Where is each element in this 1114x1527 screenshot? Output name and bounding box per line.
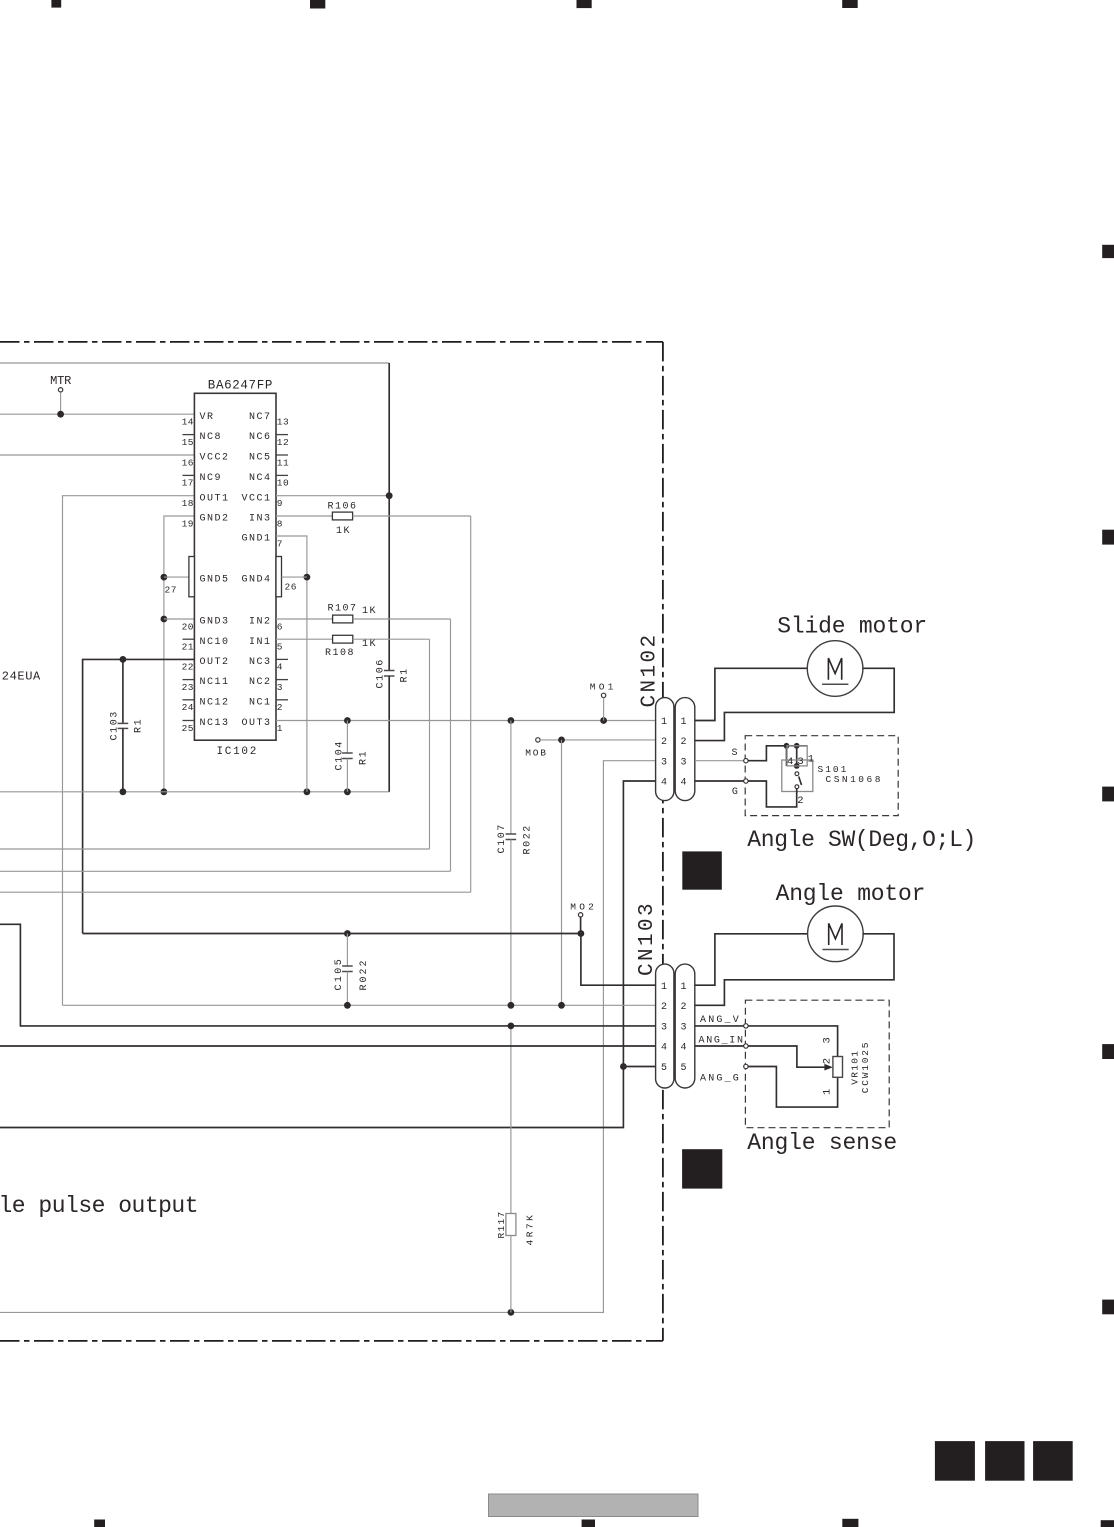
svg-text:8: 8 bbox=[277, 518, 283, 529]
svg-text:25: 25 bbox=[182, 723, 194, 734]
wire IN2 to left edge bbox=[450, 619, 452, 871]
wire IN3 to left edge bbox=[470, 516, 472, 892]
dash-dot boundary bottom bbox=[0, 1340, 663, 1342]
wire VR pin14 bbox=[0, 413, 194, 415]
wire GND4 pin26 bbox=[282, 576, 307, 578]
svg-text:IN2: IN2 bbox=[249, 617, 272, 628]
svg-text:OUT2: OUT2 bbox=[200, 657, 230, 668]
registration mark right 1 bbox=[1102, 245, 1114, 258]
registration mark bottom 4 bbox=[1101, 1520, 1114, 1527]
svg-text:1: 1 bbox=[277, 723, 283, 734]
svg-text:R1: R1 bbox=[359, 750, 370, 765]
registration mark right 4 bbox=[1102, 1044, 1114, 1059]
registration mark bottom 2 bbox=[582, 1520, 595, 1527]
svg-text:VR101: VR101 bbox=[850, 1050, 861, 1085]
capacitor C104 bbox=[346, 721, 348, 754]
svg-text:IN1: IN1 bbox=[249, 637, 272, 648]
svg-text:NC12: NC12 bbox=[200, 697, 230, 708]
svg-text:16: 16 bbox=[182, 457, 194, 468]
svg-text:NC2: NC2 bbox=[249, 677, 272, 688]
svg-text:3: 3 bbox=[661, 1023, 667, 1034]
svg-text:1: 1 bbox=[680, 982, 686, 993]
svg-text:22: 22 bbox=[182, 662, 194, 673]
svg-text:4: 4 bbox=[787, 756, 793, 768]
svg-text:NC7: NC7 bbox=[249, 412, 272, 423]
svg-text:2: 2 bbox=[661, 737, 667, 748]
wire OUT1 pin18 bbox=[63, 496, 195, 1006]
black square marker lower bbox=[682, 1149, 722, 1188]
svg-text:3: 3 bbox=[797, 756, 803, 768]
wire IN1 to left edge bbox=[429, 639, 431, 849]
wire CN102 pin4 to G terminal bbox=[695, 780, 744, 782]
svg-text:S: S bbox=[732, 748, 738, 759]
svg-text:ANG_V: ANG_V bbox=[700, 1015, 741, 1026]
capacitor C105 bbox=[346, 934, 348, 967]
svg-text:1: 1 bbox=[808, 754, 814, 766]
slide motor M symbol bbox=[828, 658, 841, 680]
registration mark top 4 bbox=[842, 0, 858, 8]
wire OUT2 MO2 line bbox=[83, 933, 581, 935]
svg-text:R022: R022 bbox=[523, 824, 534, 854]
resistor R117 bbox=[510, 1026, 512, 1214]
svg-text:GND3: GND3 bbox=[200, 617, 230, 628]
svg-text:ANG_IN: ANG_IN bbox=[699, 1035, 745, 1046]
IC102 wide pin 26 box bbox=[276, 557, 282, 597]
switch S101 outer housing bbox=[782, 760, 813, 792]
svg-text:OUT3: OUT3 bbox=[241, 718, 271, 729]
svg-text:Angle SW(Deg,O;L): Angle SW(Deg,O;L) bbox=[747, 827, 976, 853]
svg-text:1: 1 bbox=[661, 982, 667, 993]
svg-text:18: 18 bbox=[182, 498, 194, 509]
wire CN103 pin5 stub bbox=[623, 1066, 655, 1068]
wire G to switch bottom contact bbox=[748, 781, 797, 807]
svg-text:GND1: GND1 bbox=[241, 534, 271, 545]
svg-text:10: 10 bbox=[277, 478, 289, 489]
registration mark top 2 bbox=[310, 0, 325, 9]
svg-text:C107: C107 bbox=[497, 823, 508, 853]
wire ANG_G to VR101 pin1 bbox=[748, 1067, 838, 1108]
svg-text:1: 1 bbox=[680, 717, 686, 728]
wire CN103 pin3 ANG_V bbox=[695, 1025, 744, 1027]
registration mark top 3 bbox=[577, 0, 592, 8]
registration mark right 2 bbox=[1102, 530, 1114, 545]
svg-text:Slide motor: Slide motor bbox=[777, 613, 927, 639]
dashed box angle sense bbox=[745, 1000, 889, 1127]
svg-text:26: 26 bbox=[285, 582, 297, 593]
wire GND3 pin20 bbox=[164, 618, 195, 620]
svg-text:1: 1 bbox=[821, 1089, 833, 1095]
wire OUT2 pin22 bbox=[83, 659, 195, 933]
wire VCC2 pin16 bbox=[0, 454, 194, 456]
svg-text:23: 23 bbox=[182, 682, 194, 693]
capacitor C106 bbox=[388, 496, 390, 671]
svg-text:11: 11 bbox=[277, 457, 289, 468]
dash-dot boundary top bbox=[0, 341, 663, 343]
svg-text:17: 17 bbox=[182, 478, 194, 489]
svg-text:NC9: NC9 bbox=[200, 473, 223, 484]
wire MOB branch down bbox=[561, 740, 563, 1005]
wire GND bus bbox=[0, 791, 389, 793]
svg-text:5: 5 bbox=[661, 1063, 667, 1074]
svg-text:NC4: NC4 bbox=[249, 473, 272, 484]
registration mark top 1 bbox=[51, 0, 61, 8]
svg-text:C104: C104 bbox=[335, 740, 346, 770]
connector CN102 right housing bbox=[675, 698, 695, 801]
svg-text:OUT1: OUT1 bbox=[200, 493, 230, 504]
svg-text:NC3: NC3 bbox=[249, 657, 272, 668]
svg-text:MO2: MO2 bbox=[570, 902, 597, 913]
wire CN102 pin3 S line down to bottom bbox=[0, 761, 656, 1313]
IC102 wide pin 27 box bbox=[189, 557, 195, 597]
svg-text:2: 2 bbox=[821, 1058, 833, 1064]
svg-text:5: 5 bbox=[277, 642, 283, 653]
wire OUT1 net to CN103 pin2 bbox=[63, 1004, 656, 1006]
svg-text:3: 3 bbox=[661, 757, 667, 768]
wire VCC1 vertical bbox=[388, 363, 390, 496]
svg-text:CCW1025: CCW1025 bbox=[860, 1041, 871, 1094]
svg-text:4: 4 bbox=[680, 1043, 686, 1054]
wire S to switch common bbox=[748, 746, 807, 761]
wire CN102 pin4 down to CN103 pin5 bbox=[0, 781, 656, 1128]
svg-text:4: 4 bbox=[661, 777, 667, 788]
svg-text:VCC2: VCC2 bbox=[200, 453, 230, 464]
dashed box angle switch bbox=[745, 736, 898, 816]
svg-text:2: 2 bbox=[797, 795, 803, 807]
wire angle motor return to CN103 pin2 bbox=[695, 934, 894, 1006]
svg-text:ANG_G: ANG_G bbox=[700, 1073, 741, 1084]
svg-text:3: 3 bbox=[680, 757, 686, 768]
svg-text:NC8: NC8 bbox=[200, 432, 223, 443]
resistor R107 bbox=[276, 618, 333, 620]
svg-text:MTR: MTR bbox=[50, 374, 71, 388]
wire GND5 pin27 bbox=[164, 576, 189, 578]
svg-text:21: 21 bbox=[182, 642, 194, 653]
page number black squares bottom right bbox=[935, 1441, 975, 1481]
svg-text:NC13: NC13 bbox=[200, 718, 230, 729]
gray label bar bottom center bbox=[489, 1494, 699, 1517]
svg-text:IC102: IC102 bbox=[217, 746, 259, 758]
svg-text:9: 9 bbox=[277, 498, 283, 509]
wire slide motor return to CN102 pin2 bbox=[695, 668, 894, 740]
wire ANG_V jog to CN103 pin3 bbox=[0, 924, 656, 1026]
svg-text:4: 4 bbox=[680, 777, 686, 788]
svg-text:NC5: NC5 bbox=[249, 453, 272, 464]
switch S101 contact 4 lead bbox=[786, 746, 788, 766]
svg-text:2: 2 bbox=[680, 1002, 686, 1013]
svg-text:R1: R1 bbox=[400, 667, 411, 682]
connector CN102 left housing bbox=[656, 698, 674, 801]
op-amp IC102 BA6247FP body bbox=[194, 393, 276, 740]
black square marker upper bbox=[682, 851, 722, 889]
svg-text:GND4: GND4 bbox=[241, 575, 271, 586]
switch S101 lever contacts bbox=[795, 772, 799, 776]
wire GND1 pin7 bbox=[276, 536, 307, 792]
motor M102 angle motor circle bbox=[808, 906, 864, 962]
svg-text:GND5: GND5 bbox=[200, 575, 230, 586]
svg-text:2: 2 bbox=[277, 702, 283, 713]
wire VCC top border bbox=[0, 362, 389, 364]
svg-text:MO1: MO1 bbox=[590, 681, 617, 692]
connector CN103 right housing bbox=[675, 964, 695, 1088]
svg-text:15: 15 bbox=[182, 437, 194, 448]
svg-text:4R7K: 4R7K bbox=[525, 1213, 536, 1246]
svg-text:G: G bbox=[732, 787, 738, 798]
svg-text:le pulse output: le pulse output bbox=[0, 1193, 198, 1219]
svg-text:3: 3 bbox=[680, 1023, 686, 1034]
svg-text:C103: C103 bbox=[110, 710, 121, 740]
switch S101 inner housing bbox=[787, 746, 807, 766]
registration mark right 5 bbox=[1102, 1300, 1114, 1315]
svg-text:IN3: IN3 bbox=[249, 514, 272, 525]
svg-text:6: 6 bbox=[277, 621, 283, 632]
motor M101 slide motor circle bbox=[807, 641, 863, 697]
svg-text:R106: R106 bbox=[328, 502, 358, 513]
wire CN103 pin1 to angle motor bbox=[695, 934, 809, 985]
svg-text:24EUA: 24EUA bbox=[2, 670, 41, 684]
svg-text:3: 3 bbox=[277, 682, 283, 693]
svg-text:BA6247FP: BA6247FP bbox=[208, 378, 273, 392]
svg-text:13: 13 bbox=[277, 417, 289, 428]
wire ANG_IN to VR101 wiper bbox=[748, 1046, 826, 1067]
registration mark right 3 bbox=[1102, 787, 1114, 802]
svg-text:R107: R107 bbox=[328, 604, 358, 615]
svg-text:2: 2 bbox=[661, 1002, 667, 1013]
svg-text:NC1: NC1 bbox=[249, 697, 272, 708]
wire VCC1 pin9 bbox=[276, 495, 389, 497]
svg-text:1: 1 bbox=[661, 717, 667, 728]
svg-text:Angle motor: Angle motor bbox=[776, 881, 926, 907]
svg-text:NC11: NC11 bbox=[200, 677, 230, 688]
svg-text:2: 2 bbox=[680, 737, 686, 748]
node MOB bbox=[536, 738, 540, 742]
svg-text:1K: 1K bbox=[362, 639, 377, 650]
svg-text:1K: 1K bbox=[362, 606, 377, 617]
svg-text:R117: R117 bbox=[496, 1210, 507, 1238]
wire ANG_IN line to CN103 pin4 bbox=[0, 1045, 656, 1047]
svg-text:CSN1068: CSN1068 bbox=[826, 774, 883, 785]
svg-text:5: 5 bbox=[680, 1063, 686, 1074]
svg-text:CN102: CN102 bbox=[639, 632, 662, 707]
connector CN103 left housing bbox=[656, 964, 674, 1088]
dash-dot boundary right bbox=[662, 342, 664, 1341]
switch S101 contact 3 lead bbox=[796, 746, 798, 766]
svg-text:12: 12 bbox=[277, 437, 289, 448]
svg-text:R108: R108 bbox=[325, 648, 355, 659]
capacitor C103 bbox=[122, 659, 124, 723]
wire OUT3 pin1 to CN102 pin1 bbox=[276, 720, 656, 722]
svg-text:CN103: CN103 bbox=[636, 901, 659, 976]
svg-text:R1: R1 bbox=[134, 718, 145, 733]
svg-text:NC6: NC6 bbox=[249, 432, 272, 443]
svg-text:MOB: MOB bbox=[525, 748, 548, 759]
svg-text:VR: VR bbox=[200, 412, 215, 423]
wire MO2 to CN103 pin1 bbox=[581, 934, 656, 986]
svg-text:VCC1: VCC1 bbox=[241, 493, 271, 504]
resistor R106 bbox=[276, 515, 332, 517]
wire CN102 pin1 to slide motor bbox=[695, 668, 808, 720]
svg-text:R022: R022 bbox=[359, 958, 370, 990]
svg-text:20: 20 bbox=[182, 621, 194, 632]
svg-text:3: 3 bbox=[821, 1037, 833, 1043]
potentiometer VR101 body bbox=[833, 1057, 843, 1078]
wire ANG_V to VR101 pin3 bbox=[748, 1026, 838, 1057]
svg-text:24: 24 bbox=[182, 702, 194, 713]
wire CN102 pin3 to S terminal bbox=[695, 760, 744, 762]
resistor R108 bbox=[276, 638, 333, 640]
svg-text:NC10: NC10 bbox=[200, 637, 230, 648]
svg-text:19: 19 bbox=[182, 518, 194, 529]
svg-text:7: 7 bbox=[277, 538, 283, 549]
wire CN103 pin4 ANG_IN bbox=[695, 1045, 744, 1047]
svg-text:27: 27 bbox=[165, 585, 177, 596]
svg-text:4: 4 bbox=[661, 1043, 667, 1054]
svg-text:Angle sense: Angle sense bbox=[747, 1130, 897, 1156]
wire GND2 pin19 bbox=[164, 516, 195, 792]
registration mark bottom 3 bbox=[842, 1519, 858, 1527]
svg-text:4: 4 bbox=[277, 662, 283, 673]
angle motor M symbol bbox=[829, 923, 842, 945]
svg-text:C106: C106 bbox=[376, 658, 387, 688]
svg-text:1K: 1K bbox=[336, 526, 351, 537]
svg-text:14: 14 bbox=[182, 417, 194, 428]
registration mark bottom 1 bbox=[94, 1520, 105, 1527]
capacitor C107 bbox=[510, 721, 512, 835]
svg-text:C105: C105 bbox=[334, 957, 345, 991]
svg-text:GND2: GND2 bbox=[200, 514, 230, 525]
